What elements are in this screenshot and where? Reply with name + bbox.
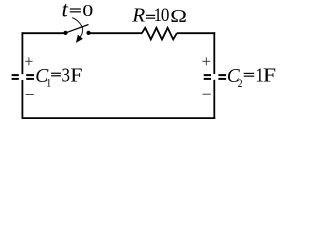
polarity plus of C2 [202,57,210,65]
polarity minus of C2 [203,93,211,95]
capacitor C2 plates [204,74,226,80]
svg-text:R: R [131,5,146,26]
svg-text:t: t [62,0,69,21]
svg-text:F: F [70,64,82,86]
wire right rail upper segment [213,32,215,74]
svg-text:10: 10 [154,4,170,25]
wire top rail right segment [177,32,215,34]
label R=10 ohm [131,4,187,26]
wire left rail upper segment [21,32,23,74]
label t=0 for switch [62,0,94,21]
wire top rail left segment [22,32,66,34]
polarity minus of C1 [26,94,34,96]
svg-text:3: 3 [62,65,70,86]
label C1=3F [35,64,82,90]
polarity plus of C1 [25,57,32,65]
svg-text:Ω: Ω [170,7,187,26]
wire bottom rail [22,117,216,119]
switch pole dot (left) [63,31,67,35]
wire right rail lower segment [213,80,215,119]
label C2=1F [227,64,276,90]
switch closing arrowhead [76,35,83,43]
capacitor C1 plates [12,74,34,80]
switch closing arrow arc [72,18,82,37]
resistor R zigzag [142,28,177,40]
wire left rail lower segment [21,80,23,119]
svg-text:2: 2 [238,77,243,90]
svg-text:0: 0 [82,2,93,21]
wire top rail middle segment [89,32,143,34]
svg-text:F: F [263,64,276,86]
svg-text:1: 1 [46,77,51,90]
switch blade (open, above right contact) [66,25,89,33]
switch contact dot (right) [86,31,90,35]
